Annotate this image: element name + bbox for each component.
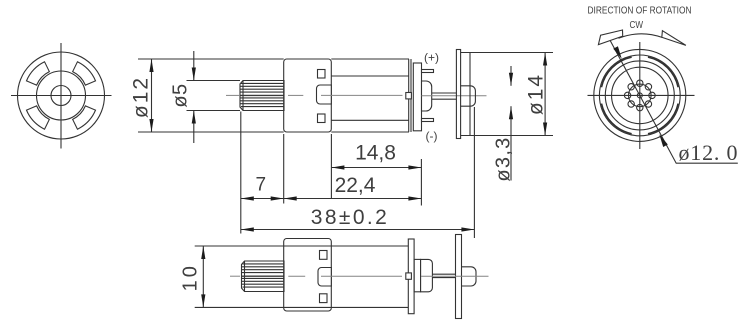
side view motor top line [331, 58, 409, 60]
dim D14 dimension line [544, 53, 546, 136]
extension line motor front [330, 134, 332, 199]
front view slot SE [73, 106, 96, 129]
extension line cap end [420, 159, 422, 206]
svg-text:(-): (-) [426, 129, 438, 143]
top view rear shaft bottom line [432, 277, 455, 279]
side view shaft chamfer facet [242, 81, 244, 111]
top view cap section [414, 259, 421, 291]
dim D5 dimension line upper [193, 51, 195, 81]
rear side view flange plate [456, 50, 460, 139]
rotation arc right flag [662, 31, 686, 46]
rear view circle 3 [605, 61, 674, 130]
dim 38 line [241, 229, 475, 231]
top view bearing square [406, 273, 412, 279]
side view shaft outline [240, 81, 284, 111]
rotation leader arrow [613, 46, 622, 59]
side view gearbox tab top [318, 70, 326, 79]
dim D5 arrow down [192, 68, 196, 81]
side view shaft knurl lines [241, 83, 285, 106]
dim D5 bottom extension line [187, 110, 241, 112]
top view shaft axis dark [242, 275, 285, 277]
side view motor can end ring 2 [410, 59, 412, 132]
rear side view body top line [461, 52, 553, 54]
dim D12 arrow up [149, 59, 153, 72]
dim D12 top extension line [138, 58, 284, 60]
svg-text:ø14: ø14 [525, 73, 548, 115]
svg-text:14,8: 14,8 [355, 142, 396, 165]
dim 10 dimension line [202, 246, 204, 307]
dim D3.3 dimension line upper [510, 66, 512, 86]
side view shaft axis dark [240, 94, 284, 96]
rear view outer circle [594, 49, 686, 141]
top view gearbox tab top [320, 251, 328, 260]
rotation arc [619, 34, 663, 38]
side view motor flat top line [331, 75, 409, 77]
rear side view hub [461, 86, 476, 106]
dim D3.3 dimension line lower [510, 106, 512, 180]
rotation arc left flag [598, 30, 622, 45]
side view gearbox tab bottom [318, 114, 326, 123]
svg-text:ø12. 0: ø12. 0 [679, 140, 738, 165]
svg-text:22,4: 22,4 [335, 174, 376, 197]
rear view gear lobes [624, 80, 655, 111]
rear view horizontal centerline [588, 94, 695, 96]
dim 7 line [241, 198, 284, 200]
side view axis centerline segments [226, 94, 240, 96]
side view terminal pin bottom [422, 119, 434, 122]
side view bearing square [406, 93, 412, 99]
side view gearbox body [284, 59, 332, 132]
dim D12 bottom extension line [138, 131, 284, 133]
rear view crimp arc SE [648, 104, 678, 134]
front view slot SW [26, 106, 49, 129]
svg-text:7: 7 [256, 175, 267, 196]
rear view gear center circle [637, 93, 642, 98]
top view flange plate [456, 235, 462, 319]
svg-text:DIRECTION OF ROTATION: DIRECTION OF ROTATION [588, 6, 692, 17]
dim D5 arrow up [192, 111, 196, 124]
dim 14.8 line [331, 167, 421, 169]
top view cap rings [408, 239, 414, 314]
front view horizontal centerline [11, 95, 112, 97]
side view end cap [413, 63, 421, 131]
rear view circle 4 [612, 67, 669, 124]
side view rear hub [422, 81, 432, 111]
top view gearbox body [284, 239, 332, 312]
front view outer circle [18, 52, 105, 139]
top view rear hub [462, 267, 477, 286]
top view gearbox tab bottom [320, 294, 328, 303]
extension line rear hub end [473, 107, 475, 238]
extension line gearbox face [283, 134, 285, 204]
dim D5 top extension line [187, 80, 241, 82]
side view motor flat bottom line [331, 119, 409, 121]
svg-text:ø12: ø12 [130, 76, 153, 118]
d12 leader arrow [659, 134, 668, 147]
rotation leader line [610, 41, 738, 164]
svg-text:(+): (+) [424, 51, 439, 65]
top view shaft chamfer facet [244, 261, 246, 292]
svg-text:CW: CW [630, 19, 644, 31]
side view rear shaft bottom line [432, 98, 457, 100]
top view shaft knurl lines [242, 264, 284, 287]
side view motor boss [317, 85, 332, 104]
front view vertical centerline [60, 43, 62, 149]
dim D12 dimension line [151, 59, 153, 132]
side view motor can end ring 1 [408, 59, 410, 132]
svg-text:ø5: ø5 [170, 83, 192, 107]
dim D12 arrow down [149, 119, 153, 132]
rear view circle 2 [599, 55, 680, 136]
front view mid circle [37, 71, 86, 120]
top view rear bushing [421, 259, 433, 291]
rear side view body bottom line [461, 135, 553, 137]
rear view crimp arc NE [648, 57, 678, 87]
rear view crimp arc SW [601, 104, 631, 134]
dim D5 dimension line lower [193, 111, 195, 144]
top view body top line [195, 245, 409, 247]
side view terminal pin top [422, 70, 434, 73]
front view center circle [51, 86, 71, 106]
rear view crimp arc NW [601, 57, 631, 87]
svg-text:ø3,3: ø3,3 [493, 136, 515, 181]
top view axis centerline segments [230, 275, 240, 277]
top view body bottom line [195, 306, 409, 308]
rear side view inner line [469, 53, 471, 136]
top view shaft outline [242, 261, 285, 292]
svg-text:10: 10 [180, 263, 202, 291]
front view slot NW [26, 62, 49, 85]
side view rear shaft top line [432, 92, 457, 94]
top view motor boss [318, 268, 331, 287]
front view slot NE [73, 62, 96, 85]
side view motor bottom line [331, 131, 409, 133]
extension line shaft tip [240, 112, 242, 234]
svg-text:38±0.2: 38±0.2 [311, 206, 389, 229]
top view rear shaft top line [432, 273, 455, 275]
rear view gear circle [629, 84, 652, 107]
rear view vertical centerline [639, 42, 641, 149]
dim 22.4 line [284, 198, 422, 200]
